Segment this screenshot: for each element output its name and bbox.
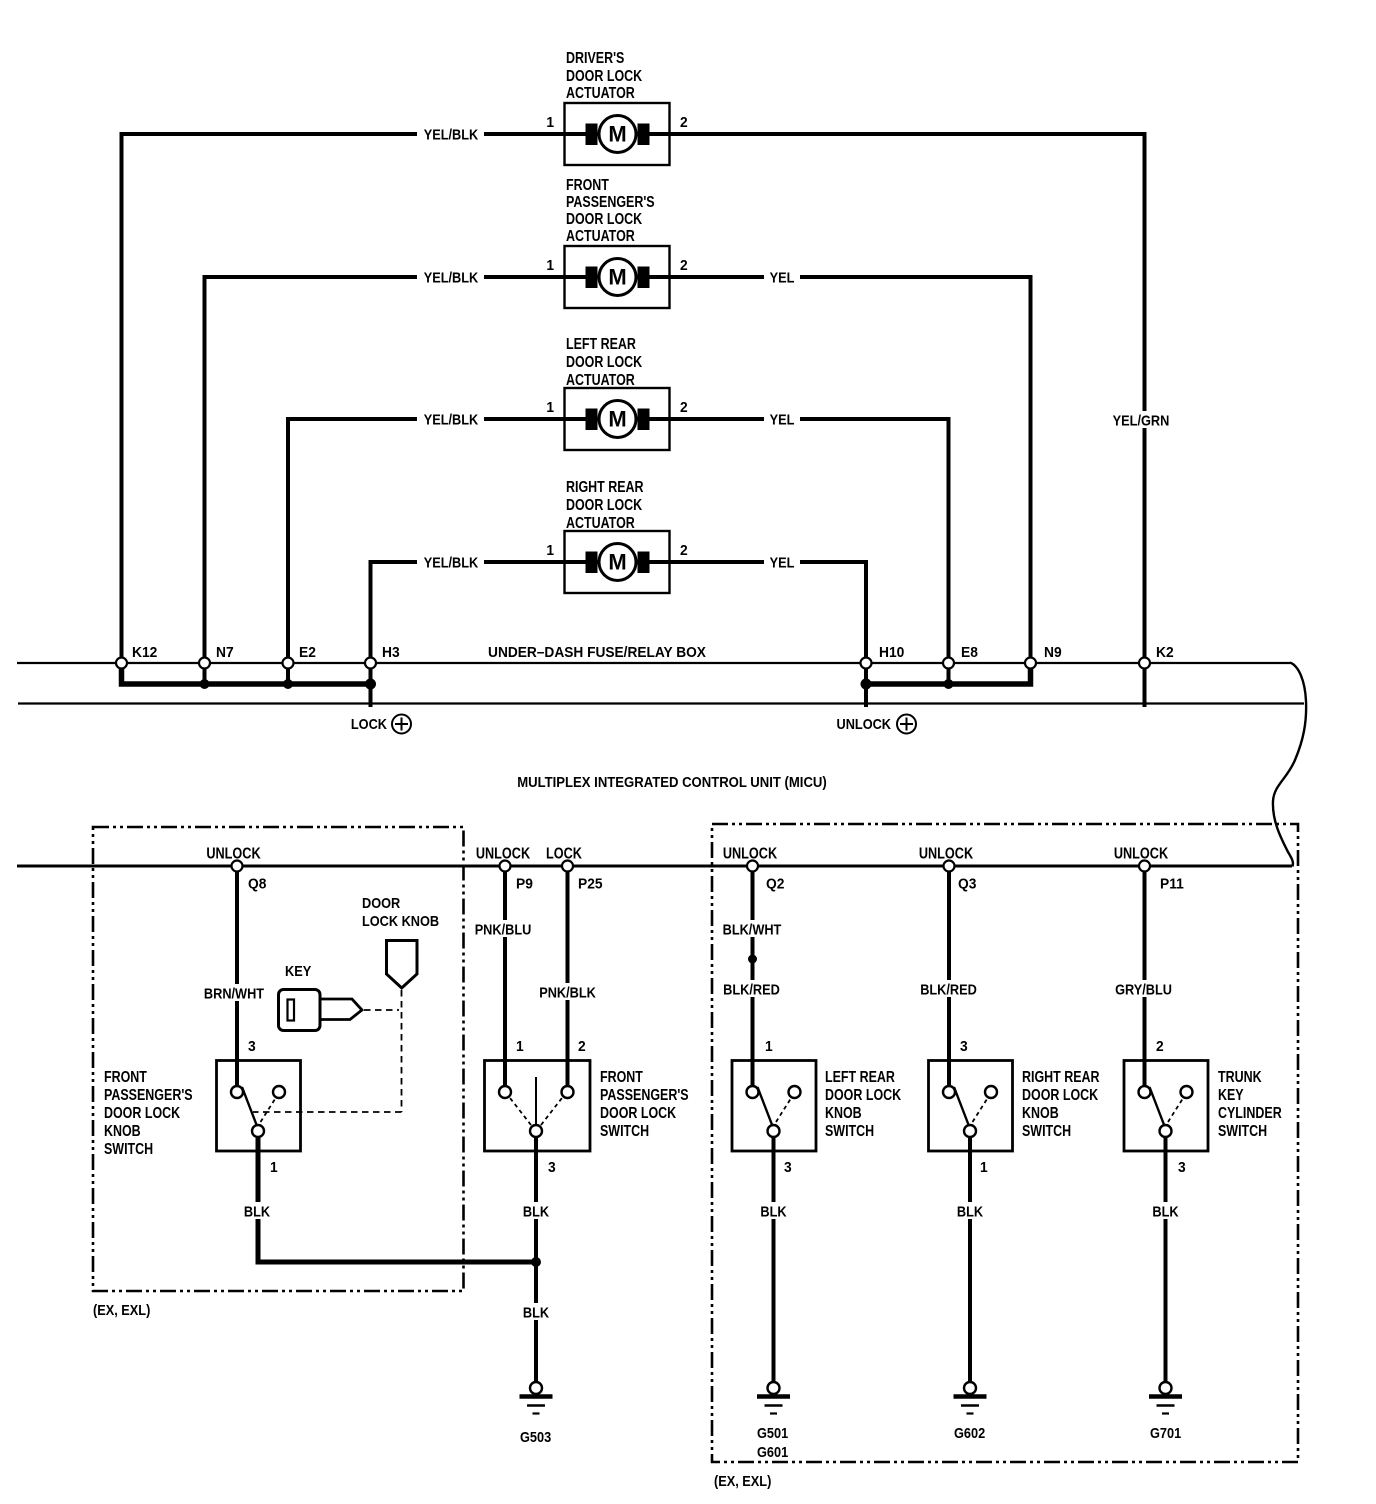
label BLK (G501/G601 wire) <box>756 1202 792 1219</box>
wire: P11 output wire <box>1143 866 1147 1086</box>
wire: Q3 output wire <box>947 866 951 1086</box>
label YEL/BLK row 4 <box>417 553 484 570</box>
label YEL/BLK row 1 <box>417 125 484 142</box>
label BLK (Q8 output) <box>239 1202 275 1219</box>
svg-text:BLK: BLK <box>523 1202 549 1219</box>
svg-text:YEL/BLK: YEL/BLK <box>424 553 478 570</box>
svg-text:P9: P9 <box>516 876 533 893</box>
wire: right wire + bus drop, actuator row 2 <box>670 277 1031 684</box>
label YEL/BLK row 3 <box>417 410 484 427</box>
wire: right wire + bus drop, actuator row 3 <box>670 419 949 684</box>
svg-text:BLK: BLK <box>760 1202 786 1219</box>
svg-text:2: 2 <box>680 258 688 275</box>
svg-text:DOOR LOCK: DOOR LOCK <box>566 68 643 86</box>
svg-text:FRONT: FRONT <box>566 177 609 195</box>
label BLK/RED (Q3) <box>915 980 982 997</box>
svg-text:PNK/BLU: PNK/BLU <box>475 920 532 937</box>
wire: switch output to G602 <box>968 1137 972 1382</box>
svg-text:1: 1 <box>516 1039 524 1056</box>
door lock knob symbol <box>387 941 418 989</box>
driver's door lock actuator (motor M) <box>565 103 670 165</box>
svg-text:BLK: BLK <box>1152 1202 1178 1219</box>
svg-text:K2: K2 <box>1156 645 1174 662</box>
svg-text:FRONT: FRONT <box>600 1069 643 1087</box>
label BLK (G602 wire) <box>952 1202 988 1219</box>
label: trunk key cylinder switch name <box>1218 1069 1282 1141</box>
svg-text:K12: K12 <box>132 645 157 662</box>
svg-text:GRY/BLU: GRY/BLU <box>1115 980 1172 997</box>
label YEL/BLK row 2 <box>417 268 484 285</box>
svg-text:SWITCH: SWITCH <box>1218 1123 1267 1141</box>
svg-text:DOOR LOCK: DOOR LOCK <box>1022 1087 1099 1105</box>
wire: Q8 switch output to junction <box>258 1137 536 1262</box>
svg-text:1: 1 <box>270 1160 278 1177</box>
switch left rear door lock knob switch <box>732 1061 816 1152</box>
svg-text:1: 1 <box>546 258 554 275</box>
terminal P25 <box>562 861 573 872</box>
svg-text:BLK: BLK <box>957 1202 983 1219</box>
junction at H3 <box>365 679 376 690</box>
label BLK (G701 wire) <box>1148 1202 1184 1219</box>
svg-text:KNOB: KNOB <box>104 1123 141 1141</box>
svg-text:UNDER–DASH FUSE/RELAY BOX: UNDER–DASH FUSE/RELAY BOX <box>488 644 706 661</box>
junction at G503 wire <box>531 1257 541 1267</box>
svg-text:BLK/RED: BLK/RED <box>723 980 780 997</box>
svg-text:RIGHT REAR: RIGHT REAR <box>566 479 644 497</box>
svg-text:M: M <box>608 265 626 290</box>
label G503 <box>520 1428 551 1445</box>
svg-text:DRIVER'S: DRIVER'S <box>566 50 624 68</box>
dashed linkage knob vertical <box>401 990 403 1112</box>
svg-text:1: 1 <box>980 1160 988 1177</box>
label: driver's door lock actuator name <box>566 50 643 103</box>
svg-text:1: 1 <box>765 1039 773 1056</box>
switch: front passenger door lock switch <box>485 1061 591 1152</box>
svg-text:UNLOCK: UNLOCK <box>723 845 778 862</box>
wire: switch output to G501/G601 <box>772 1137 776 1382</box>
junction at E8 <box>944 679 954 689</box>
wire: P25 output wire <box>566 866 570 1086</box>
svg-text:PASSENGER'S: PASSENGER'S <box>566 194 655 212</box>
dashed linkage into knob switch <box>253 1111 402 1113</box>
label BLK (below junction) <box>518 1303 554 1320</box>
svg-text:Q8: Q8 <box>248 876 266 893</box>
key symbol <box>279 990 363 1031</box>
svg-text:DOOR: DOOR <box>362 894 400 911</box>
label DOOR LOCK KNOB <box>362 894 439 929</box>
label YEL row 4 <box>764 553 800 570</box>
ground G602 <box>954 1382 987 1414</box>
label BLK/RED (Q2) <box>718 980 785 997</box>
svg-text:BRN/WHT: BRN/WHT <box>204 984 265 1001</box>
svg-text:LEFT REAR: LEFT REAR <box>825 1069 895 1087</box>
wire: right wire + bus drop, actuator row 4 <box>670 562 867 707</box>
wire: left wire + bus drop, actuator row 1 <box>122 134 565 684</box>
svg-text:YEL: YEL <box>770 553 795 570</box>
svg-text:DOOR LOCK: DOOR LOCK <box>600 1105 677 1123</box>
svg-text:UNLOCK: UNLOCK <box>1114 845 1169 862</box>
svg-text:G601: G601 <box>757 1443 788 1460</box>
svg-text:M: M <box>608 407 626 432</box>
terminal H3 <box>365 658 376 669</box>
terminal Q3 <box>944 861 955 872</box>
svg-text:G701: G701 <box>1150 1424 1181 1441</box>
svg-text:BLK/RED: BLK/RED <box>920 980 977 997</box>
svg-text:YEL/BLK: YEL/BLK <box>424 410 478 427</box>
terminal H10 <box>861 658 872 669</box>
torn-edge continuation curve <box>1273 663 1306 867</box>
svg-text:LOCK: LOCK <box>546 845 583 862</box>
svg-text:CYLINDER: CYLINDER <box>1218 1105 1282 1123</box>
svg-text:ACTUATOR: ACTUATOR <box>566 228 635 246</box>
label G602 <box>954 1424 985 1441</box>
splice on Q2 wire <box>748 955 757 964</box>
ground G503 <box>520 1382 553 1414</box>
svg-text:E2: E2 <box>299 645 316 662</box>
svg-text:MULTIPLEX INTEGRATED CONTROL U: MULTIPLEX INTEGRATED CONTROL UNIT (MICU) <box>517 773 827 790</box>
svg-text:BLK: BLK <box>523 1303 549 1320</box>
svg-text:N9: N9 <box>1044 645 1062 662</box>
terminal K12 <box>116 658 127 669</box>
svg-text:KNOB: KNOB <box>1022 1105 1059 1123</box>
svg-text:YEL: YEL <box>770 268 795 285</box>
svg-text:E8: E8 <box>961 645 978 662</box>
svg-text:DOOR LOCK: DOOR LOCK <box>566 354 643 372</box>
wire: right wire + bus drop, actuator row 1 <box>670 134 1145 707</box>
label: right rear door lock actuator name <box>566 479 644 533</box>
svg-text:UNLOCK: UNLOCK <box>206 845 261 862</box>
svg-text:3: 3 <box>960 1039 968 1056</box>
svg-text:PASSENGER'S: PASSENGER'S <box>600 1087 689 1105</box>
terminal Q8 <box>232 861 243 872</box>
svg-text:PASSENGER'S: PASSENGER'S <box>104 1087 193 1105</box>
svg-text:SWITCH: SWITCH <box>104 1141 153 1159</box>
svg-text:G501: G501 <box>757 1424 788 1441</box>
terminal E8 <box>943 658 954 669</box>
svg-text:2: 2 <box>680 115 688 132</box>
label BLK/WHT <box>718 920 785 937</box>
label G701 <box>1150 1424 1181 1441</box>
svg-text:P11: P11 <box>1160 876 1184 893</box>
svg-text:SWITCH: SWITCH <box>600 1123 649 1141</box>
svg-text:ACTUATOR: ACTUATOR <box>566 85 635 103</box>
terminal P11 <box>1139 861 1150 872</box>
wire: Q8 output wire <box>235 866 239 1086</box>
svg-text:KNOB: KNOB <box>825 1105 862 1123</box>
svg-text:ACTUATOR: ACTUATOR <box>566 515 635 533</box>
svg-text:TRUNK: TRUNK <box>1218 1069 1262 1087</box>
MICU bottom rail <box>17 865 1292 868</box>
ground G501/G601 <box>757 1382 790 1414</box>
switch front passenger door lock knob switch <box>217 1061 301 1152</box>
svg-text:BLK/WHT: BLK/WHT <box>723 920 782 937</box>
dashed option box (EX, EXL) left <box>93 827 464 1291</box>
label: left rear door lock knob switch name <box>825 1069 902 1141</box>
under-dash fuse/relay box top rail <box>17 662 1290 664</box>
svg-text:BLK: BLK <box>244 1202 270 1219</box>
svg-text:DOOR LOCK: DOOR LOCK <box>825 1087 902 1105</box>
svg-text:YEL: YEL <box>770 410 795 427</box>
svg-text:H10: H10 <box>879 645 904 662</box>
terminal Q2 <box>747 861 758 872</box>
label BLK (switch output) <box>518 1202 554 1219</box>
wire: door lock switch output to G503 <box>534 1137 538 1382</box>
terminal K2 <box>1139 658 1150 669</box>
label YEL/GRN on K2 wire <box>1107 411 1174 428</box>
svg-text:1: 1 <box>546 543 554 560</box>
terminal N7 <box>199 658 210 669</box>
svg-text:KEY: KEY <box>1218 1087 1244 1105</box>
junction at E2 <box>283 679 293 689</box>
svg-text:2: 2 <box>680 400 688 417</box>
terminal E2 <box>283 658 294 669</box>
right rear door lock actuator (motor M) <box>565 531 670 593</box>
dashed linkage key to switch <box>364 1009 399 1011</box>
svg-text:1: 1 <box>546 400 554 417</box>
svg-text:2: 2 <box>578 1039 586 1056</box>
svg-text:KEY: KEY <box>285 962 312 979</box>
wire: left wire + bus drop, actuator row 4 <box>371 562 565 707</box>
svg-text:DOOR LOCK: DOOR LOCK <box>566 211 643 229</box>
junction at H10 <box>861 679 872 690</box>
svg-text:YEL/BLK: YEL/BLK <box>424 125 478 142</box>
svg-text:G602: G602 <box>954 1424 985 1441</box>
label: right rear door lock knob switch name <box>1022 1069 1100 1141</box>
svg-text:3: 3 <box>248 1039 256 1056</box>
label BRN/WHT <box>200 984 267 1001</box>
switch trunk key cylinder switch <box>1124 1061 1208 1152</box>
label: front passenger door lock knob switch name <box>104 1069 193 1159</box>
svg-text:3: 3 <box>784 1160 792 1177</box>
wire: switch output to G701 <box>1164 1137 1168 1382</box>
svg-text:G503: G503 <box>520 1428 551 1445</box>
svg-text:LOCK KNOB: LOCK KNOB <box>362 912 439 929</box>
label: front passenger door lock switch name <box>600 1069 689 1141</box>
svg-text:YEL/BLK: YEL/BLK <box>424 268 478 285</box>
svg-text:H3: H3 <box>382 645 400 662</box>
svg-text:RIGHT REAR: RIGHT REAR <box>1022 1069 1100 1087</box>
svg-text:Q3: Q3 <box>958 876 976 893</box>
terminal N9 <box>1025 658 1036 669</box>
UNLOCK driver symbol <box>837 715 916 734</box>
svg-text:YEL/GRN: YEL/GRN <box>1113 411 1170 428</box>
label: left rear door lock actuator name <box>566 336 643 390</box>
svg-text:UNLOCK: UNLOCK <box>837 715 891 732</box>
under-dash fuse/relay box bottom rail <box>18 702 1304 704</box>
svg-text:P25: P25 <box>578 876 603 893</box>
ground G701 <box>1149 1382 1182 1414</box>
svg-text:UNLOCK: UNLOCK <box>476 845 531 862</box>
junction at N7 <box>200 679 210 689</box>
wire: Q2 output wire <box>751 866 755 1086</box>
label GRY/BLU <box>1110 980 1177 997</box>
wire: lock jumper K12-N7-E2-H3 <box>122 663 371 684</box>
svg-text:ACTUATOR: ACTUATOR <box>566 372 635 390</box>
wire: P9 output wire <box>503 866 507 1086</box>
switch right rear door lock knob switch <box>929 1061 1013 1152</box>
label G501/G601 <box>757 1424 788 1460</box>
dashed option box (EX, EXL) right <box>712 824 1298 1462</box>
svg-text:FRONT: FRONT <box>104 1069 147 1087</box>
label PNK/BLK <box>534 983 601 1000</box>
left rear door lock actuator (motor M) <box>565 388 670 450</box>
label YEL row 2 <box>764 268 800 285</box>
svg-text:1: 1 <box>546 115 554 132</box>
wire: left wire + bus drop, actuator row 3 <box>288 419 565 684</box>
svg-text:SWITCH: SWITCH <box>1022 1123 1071 1141</box>
svg-text:N7: N7 <box>216 645 234 662</box>
wire: unlock jumper H10-E8-N9 <box>866 663 1031 684</box>
svg-text:LEFT REAR: LEFT REAR <box>566 336 636 354</box>
svg-text:(EX, EXL): (EX, EXL) <box>714 1472 771 1489</box>
svg-text:3: 3 <box>548 1160 556 1177</box>
svg-text:DOOR LOCK: DOOR LOCK <box>104 1105 181 1123</box>
svg-text:SWITCH: SWITCH <box>825 1123 874 1141</box>
wire: left wire + bus drop, actuator row 2 <box>205 277 565 684</box>
svg-text:PNK/BLK: PNK/BLK <box>539 983 596 1000</box>
front passenger's door lock actuator (motor M) <box>565 246 670 308</box>
label YEL row 3 <box>764 410 800 427</box>
svg-text:M: M <box>608 550 626 575</box>
LOCK driver symbol <box>351 715 411 734</box>
svg-text:2: 2 <box>680 543 688 560</box>
svg-text:M: M <box>608 122 626 147</box>
svg-text:UNLOCK: UNLOCK <box>919 845 974 862</box>
svg-text:LOCK: LOCK <box>351 715 387 732</box>
svg-text:DOOR LOCK: DOOR LOCK <box>566 497 643 515</box>
label PNK/BLU <box>469 920 536 937</box>
svg-text:3: 3 <box>1178 1160 1186 1177</box>
svg-text:Q2: Q2 <box>766 876 784 893</box>
label: front passenger's door lock actuator name <box>566 177 655 246</box>
svg-text:2: 2 <box>1156 1039 1164 1056</box>
terminal P9 <box>500 861 511 872</box>
svg-text:(EX, EXL): (EX, EXL) <box>93 1301 150 1318</box>
